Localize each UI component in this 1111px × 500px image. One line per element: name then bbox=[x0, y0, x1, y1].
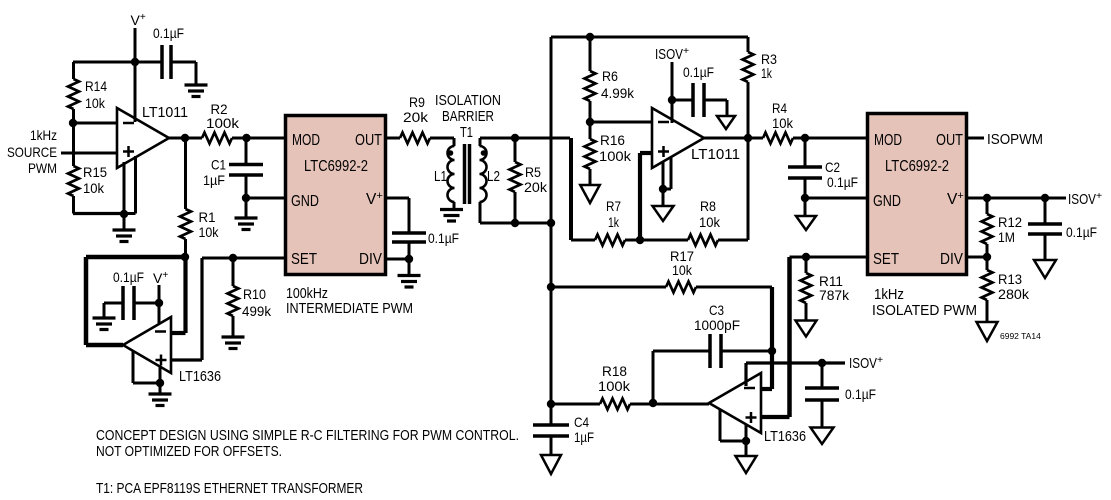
svg-text:ISOPWM: ISOPWM bbox=[987, 131, 1043, 148]
svg-text:1µF: 1µF bbox=[574, 429, 594, 445]
svg-text:T1: PCA EPF8119S ETHERNET TRAN: T1: PCA EPF8119S ETHERNET TRANSFORMER bbox=[96, 480, 363, 497]
U1 V+ pin overshoot bbox=[134, 112, 137, 122]
svg-text:MOD: MOD bbox=[292, 132, 320, 149]
junction rail/R18/C4 bbox=[547, 400, 555, 408]
svg-text:1k: 1k bbox=[608, 214, 620, 230]
junction R14/R15/inverting input bbox=[69, 119, 77, 127]
label R16 bbox=[599, 132, 632, 164]
label 0.1uF (C5) bbox=[153, 25, 184, 41]
wire U3 inverting input riser bbox=[171, 257, 186, 333]
svg-text:C3: C3 bbox=[709, 302, 724, 318]
U2 caption 100kHz bbox=[286, 285, 328, 302]
resistor R7 bbox=[595, 235, 640, 246]
label LT1011 (U4) bbox=[691, 146, 740, 163]
wire to U1 inverting input bbox=[73, 122, 117, 125]
svg-text:R6: R6 bbox=[602, 68, 618, 84]
svg-text:LTC6992-2: LTC6992-2 bbox=[304, 158, 368, 175]
svg-text:10k: 10k bbox=[85, 95, 106, 111]
wire U5 OUT to ISOPWM bbox=[967, 137, 984, 140]
svg-text:100k: 100k bbox=[206, 115, 240, 131]
wire U3 + input to SET line bbox=[171, 258, 285, 360]
capacitor C2 0.1uF bbox=[788, 138, 822, 198]
ground (C7/DIV) bbox=[398, 276, 421, 288]
capacitor C9 0.1uF bypass (U6) bbox=[805, 363, 839, 400]
svg-text:ISOLATION: ISOLATION bbox=[435, 92, 501, 109]
resistor R1 bbox=[180, 138, 191, 257]
svg-text:GND: GND bbox=[291, 193, 319, 210]
svg-text:CONCEPT DESIGN USING SIMPLE R-: CONCEPT DESIGN USING SIMPLE R-C FILTERIN… bbox=[96, 427, 519, 444]
resistor R3 bbox=[743, 37, 754, 138]
svg-text:R5: R5 bbox=[525, 164, 541, 180]
wire C1 bottom to ground bbox=[245, 198, 248, 217]
svg-text:R7: R7 bbox=[606, 198, 621, 214]
junction C9 top bbox=[818, 359, 826, 367]
svg-text:L1: L1 bbox=[434, 169, 447, 185]
resistor R9 bbox=[400, 133, 454, 144]
svg-text:0.1µF: 0.1µF bbox=[428, 230, 459, 246]
label R10 bbox=[242, 286, 272, 319]
svg-text:10k: 10k bbox=[672, 262, 693, 278]
wire rail to R17 bbox=[551, 286, 666, 289]
junction C1 bottom / U2 GND bbox=[242, 194, 250, 202]
svg-text:R13: R13 bbox=[998, 271, 1022, 287]
junction U3 supply node bbox=[155, 299, 163, 307]
ground (U4, isolated) bbox=[653, 206, 674, 221]
svg-text:R10: R10 bbox=[243, 286, 266, 302]
svg-text:LT1636: LT1636 bbox=[764, 428, 806, 445]
label 0.1uF (C10) bbox=[1066, 224, 1097, 240]
wire C9 to ground bbox=[821, 400, 824, 428]
junction R6 top bbox=[586, 33, 594, 41]
wire to U5 MOD pin bbox=[805, 137, 867, 140]
wire C10 to ground bbox=[1044, 234, 1047, 260]
wire into T1 primary bbox=[453, 138, 456, 146]
label L2 bbox=[487, 169, 500, 185]
resistor R2 bbox=[202, 133, 247, 144]
U5 pin label MOD bbox=[874, 132, 902, 149]
resistor R10 bbox=[228, 258, 239, 338]
label R17 bbox=[670, 248, 694, 278]
U5 caption 1kHz bbox=[874, 286, 904, 303]
junction R5 top bbox=[511, 134, 519, 142]
svg-text:10k: 10k bbox=[699, 214, 721, 230]
svg-text:SET: SET bbox=[291, 251, 317, 268]
label LT1636 (U3) bbox=[179, 368, 221, 385]
label C4 bbox=[574, 414, 594, 445]
svg-text:R12: R12 bbox=[998, 214, 1022, 230]
junction R12 top bbox=[983, 194, 991, 202]
U1 minus symbol bbox=[123, 122, 134, 125]
junction C3 right / inverting node bbox=[768, 347, 776, 355]
junction U4 output / R3 / R8 node bbox=[744, 134, 752, 142]
label 0.1uF (C9) bbox=[845, 386, 876, 402]
svg-text:BARRIER: BARRIER bbox=[442, 108, 494, 125]
U5 pin label V+ bbox=[947, 190, 964, 208]
capacitor C10 0.1uF (ISOV+) bbox=[1028, 198, 1062, 234]
svg-text:20k: 20k bbox=[524, 179, 548, 195]
wire T1 secondary bottom bbox=[480, 202, 551, 223]
U5 caption ISOLATED PWM bbox=[872, 302, 977, 319]
label 6992 TA14 bbox=[1000, 331, 1041, 341]
svg-text:C1: C1 bbox=[211, 157, 226, 173]
svg-text:0.1µF: 0.1µF bbox=[1066, 224, 1097, 240]
wire U5 DIV pin bbox=[967, 256, 987, 259]
svg-text:LT1011: LT1011 bbox=[691, 146, 740, 163]
U3 plus symbol bbox=[156, 355, 167, 366]
wire T1 secondary top bbox=[480, 138, 570, 146]
svg-text:R14: R14 bbox=[85, 78, 107, 94]
svg-text:LTC6992-2: LTC6992-2 bbox=[885, 158, 949, 175]
label R6 bbox=[601, 68, 635, 101]
op-amp U6 LT1636 triangle bbox=[709, 373, 761, 433]
resistor R14 bbox=[68, 62, 79, 123]
junction R1/feedback/U3 inverting bbox=[181, 253, 189, 261]
label ISOV+ (U6 supply) bbox=[849, 355, 883, 372]
op-amp U4 LT1011 triangle bbox=[652, 108, 704, 168]
svg-text:PWM: PWM bbox=[28, 160, 57, 176]
svg-text:6992 TA14: 6992 TA14 bbox=[1000, 331, 1041, 341]
svg-text:R16: R16 bbox=[600, 132, 625, 148]
node V+ supply label bbox=[131, 12, 146, 28]
wire to U2 MOD pin bbox=[247, 137, 285, 140]
transformer T1 secondary winding L2 bbox=[480, 146, 487, 202]
svg-text:MOD: MOD bbox=[874, 132, 902, 149]
label ISOV+ (net) bbox=[1068, 191, 1102, 208]
U2 pin label MOD bbox=[292, 132, 320, 149]
junction R4 / C2 / U5 MOD node bbox=[801, 134, 809, 142]
svg-text:DIV: DIV bbox=[940, 251, 964, 268]
junction R7/R8/U4 + input bbox=[636, 236, 644, 244]
wire C5 to ground bbox=[171, 62, 196, 84]
svg-text:787k: 787k bbox=[819, 287, 850, 303]
svg-text:C2: C2 bbox=[825, 159, 840, 175]
wire C8 to ground bbox=[704, 100, 727, 117]
U5 pin label OUT bbox=[936, 132, 963, 149]
junction R5 bottom bbox=[511, 219, 519, 227]
wire to U4 inverting input bbox=[590, 121, 652, 124]
resistor R11 bbox=[801, 257, 812, 320]
svg-text:L2: L2 bbox=[487, 169, 500, 185]
ground (U1) bbox=[113, 230, 136, 242]
U5 pin label DIV bbox=[940, 251, 964, 268]
resistor R5 bbox=[510, 138, 521, 223]
svg-text:SET: SET bbox=[873, 251, 899, 268]
label L1 bbox=[434, 169, 447, 185]
label R14 bbox=[85, 78, 107, 111]
label R3 bbox=[761, 51, 777, 81]
label R18 bbox=[598, 363, 631, 394]
junction R2/C1/MOD node bbox=[242, 134, 250, 142]
U2 part label LTC6992-2 bbox=[304, 158, 368, 175]
svg-text:0.1µF: 0.1µF bbox=[683, 64, 714, 80]
junction C7/DIV node bbox=[405, 255, 413, 263]
ground (L1) bbox=[440, 210, 463, 222]
wire rail to R18 bbox=[551, 403, 600, 406]
svg-text:100k: 100k bbox=[599, 148, 632, 164]
label R15 bbox=[83, 164, 107, 196]
input label 1kHz SOURCE PWM bbox=[7, 127, 57, 176]
transformer T1 primary winding L1 bbox=[448, 146, 455, 202]
U5 pin label SET bbox=[873, 251, 899, 268]
svg-text:ISOLATED PWM: ISOLATED PWM bbox=[872, 302, 977, 319]
label C3 bbox=[694, 302, 740, 333]
junction R10 top / SET line bbox=[229, 254, 237, 262]
junction R12/R13/DIV bbox=[983, 253, 991, 261]
junction U1 output node bbox=[181, 134, 189, 142]
label C1 bbox=[203, 157, 226, 189]
label R11 bbox=[819, 273, 850, 303]
svg-text:1k: 1k bbox=[761, 65, 773, 81]
label LT1636 (U6) bbox=[764, 428, 806, 445]
wire C2 bottom to U5 GND pin bbox=[805, 197, 867, 200]
svg-text:INTERMEDIATE PWM: INTERMEDIATE PWM bbox=[286, 300, 413, 317]
svg-text:R8: R8 bbox=[700, 198, 716, 214]
wire L2 top to R7 bbox=[571, 138, 595, 240]
U6 V- pins to ground node bbox=[720, 410, 746, 456]
junction secondary-bottom / rail bbox=[547, 219, 555, 227]
note line 3 T1 part bbox=[96, 480, 363, 497]
wire U3 V+ supply bbox=[158, 285, 161, 324]
svg-text:T1: T1 bbox=[460, 125, 473, 141]
svg-text:NOT OPTIMIZED FOR OFFSETS.: NOT OPTIMIZED FOR OFFSETS. bbox=[96, 443, 282, 460]
svg-text:R4: R4 bbox=[772, 100, 787, 116]
ground (C10, isolated) bbox=[1034, 260, 1056, 278]
junction C10 top bbox=[1041, 194, 1049, 202]
label C2 bbox=[825, 159, 858, 190]
wire U2 OUT to R9 bbox=[386, 137, 400, 140]
label T1 bbox=[460, 125, 473, 141]
label R7 bbox=[606, 198, 621, 230]
U5 pin label GND bbox=[873, 193, 901, 210]
svg-text:C4: C4 bbox=[574, 414, 589, 430]
U2 caption INTERMEDIATE PWM bbox=[286, 300, 413, 317]
op-amp U1 LT1011 triangle bbox=[117, 108, 169, 168]
U5 part label LTC6992-2 bbox=[885, 158, 949, 175]
wire source PWM input to U1 + input bbox=[61, 152, 117, 155]
label LT1011 (U1) bbox=[142, 104, 188, 121]
label R4 bbox=[772, 100, 794, 131]
ground (C1) bbox=[235, 218, 258, 230]
U2 pin label DIV bbox=[359, 251, 383, 268]
label R2 bbox=[206, 101, 240, 131]
svg-text:100k: 100k bbox=[598, 378, 631, 394]
capacitor C3 1000pF feedback bbox=[653, 334, 772, 403]
wire ISOV+ to U6 supply pin bbox=[746, 363, 845, 386]
svg-text:R15: R15 bbox=[83, 164, 107, 180]
junction C3 left / U6 output node bbox=[649, 399, 657, 407]
junction U6 ground node bbox=[742, 437, 750, 445]
junction R6/R16/U4 inverting bbox=[586, 118, 594, 126]
resistor R18 bbox=[600, 399, 709, 410]
wire top bias rail bbox=[551, 36, 748, 39]
U4 V+ pin overshoot bbox=[671, 113, 674, 123]
resistor R17 bbox=[666, 282, 772, 293]
ground (U3) bbox=[149, 394, 172, 406]
wire C4 to ground bbox=[550, 436, 553, 455]
ground (U6, isolated) bbox=[736, 456, 757, 473]
ground (C5) bbox=[185, 85, 208, 97]
wire R8 to U4 output node (hysteresis) bbox=[747, 138, 750, 240]
junction U4 supply node bbox=[668, 96, 676, 104]
wire C6 to ground bbox=[104, 303, 123, 318]
U3 minus symbol bbox=[155, 330, 166, 333]
svg-text:GND: GND bbox=[873, 193, 901, 210]
svg-text:OUT: OUT bbox=[355, 132, 382, 149]
T1 secondary phase dot bbox=[481, 150, 487, 156]
label ISOPWM output bbox=[987, 131, 1043, 148]
resistor R16 bbox=[585, 122, 596, 185]
U1 plus symbol bbox=[123, 146, 134, 157]
svg-text:1kHz: 1kHz bbox=[874, 286, 904, 303]
wire rail (T1 secondary return) bbox=[550, 37, 553, 425]
U6 minus symbol bbox=[744, 387, 755, 390]
wire U4 + input riser bbox=[640, 153, 652, 240]
resistor R4 bbox=[763, 133, 805, 144]
svg-text:LT1011: LT1011 bbox=[142, 104, 188, 121]
op-amp U3 LT1636 triangle bbox=[123, 317, 171, 373]
capacitor C4 1uF bbox=[533, 404, 569, 436]
U2 pin label SET bbox=[291, 251, 317, 268]
wire U1 output bbox=[169, 137, 202, 140]
label 0.1uF (C7) bbox=[428, 230, 459, 246]
label ISOLATION BARRIER bbox=[435, 92, 501, 125]
transformer T1 core bbox=[465, 144, 470, 204]
U2 pin label OUT bbox=[355, 132, 382, 149]
ground (C6) bbox=[93, 318, 116, 330]
svg-text:280k: 280k bbox=[998, 286, 1030, 302]
capacitor C5 0.1uF bypass (V+) bbox=[162, 45, 171, 79]
ground (R13, isolated) bbox=[977, 322, 998, 341]
resistor R8 bbox=[640, 235, 748, 246]
svg-text:10k: 10k bbox=[199, 224, 220, 240]
wire U5 V+ to ISOV+ bbox=[967, 197, 1066, 200]
label R5 bbox=[524, 164, 548, 195]
svg-text:DIV: DIV bbox=[359, 251, 383, 268]
U2 pin label GND bbox=[291, 193, 319, 210]
svg-text:R1: R1 bbox=[199, 209, 216, 225]
wire R17 to U6 inverting input bbox=[761, 287, 772, 389]
wire U2 V+ pin to C7 bbox=[386, 198, 409, 233]
svg-text:1kHz: 1kHz bbox=[30, 127, 57, 143]
wire thick feedback U3 output loop bbox=[86, 257, 185, 345]
ground (C4, isolated) bbox=[541, 455, 561, 474]
capacitor C8 0.1uF bypass (U4) bbox=[672, 83, 704, 117]
label R1 bbox=[199, 209, 220, 240]
junction U1 ground node bbox=[120, 210, 128, 218]
svg-text:1M: 1M bbox=[998, 229, 1015, 245]
svg-text:4.99k: 4.99k bbox=[601, 85, 635, 101]
wire V+ node to R14 top bbox=[73, 61, 162, 64]
resistor R13 bbox=[982, 257, 993, 322]
svg-text:20k: 20k bbox=[403, 109, 429, 125]
label ISOV+ (U4 supply) bbox=[655, 46, 689, 63]
label R9 bbox=[403, 94, 429, 125]
label R8 bbox=[699, 198, 721, 230]
ground (R16, isolated) bbox=[580, 185, 600, 203]
label 0.1uF (C6) bbox=[113, 269, 144, 285]
U6 plus symbol bbox=[746, 412, 757, 423]
svg-text:10k: 10k bbox=[83, 180, 105, 196]
junction U3 ground node bbox=[156, 379, 164, 387]
capacitor C1 1uF bbox=[229, 138, 263, 198]
U4 plus symbol bbox=[658, 146, 669, 157]
ground (R11, isolated) bbox=[796, 321, 817, 337]
wire U4 output bbox=[704, 137, 763, 140]
label R13 bbox=[998, 271, 1030, 302]
svg-text:0.1µF: 0.1µF bbox=[113, 269, 144, 285]
junction C2 bottom / U5 GND bbox=[801, 194, 809, 202]
T1 primary phase dot bbox=[448, 150, 454, 156]
svg-text:10k: 10k bbox=[772, 115, 794, 131]
note line 2 bbox=[96, 443, 282, 460]
U2 pin label V+ bbox=[366, 190, 383, 208]
ground (C8, isolated) bbox=[717, 116, 735, 129]
U1 V- pins to ground node bbox=[124, 156, 136, 229]
svg-text:1000pF: 1000pF bbox=[694, 317, 740, 333]
junction rail/R17 bbox=[547, 283, 555, 291]
wire ISOV+ to U4 supply pin bbox=[671, 62, 674, 119]
ground (C9, isolated) bbox=[811, 428, 834, 445]
junction V+ node bbox=[131, 58, 139, 66]
wire U6 + input to U5 SET line bbox=[761, 257, 867, 417]
note line 1 bbox=[96, 427, 519, 444]
junction R11 top / SET line bbox=[802, 253, 810, 261]
svg-text:1µF: 1µF bbox=[203, 172, 225, 188]
junction U4 ground node bbox=[659, 185, 667, 193]
resistor R12 bbox=[982, 198, 993, 257]
svg-text:R9: R9 bbox=[409, 94, 425, 110]
IC U5 LTC6992-2 (1kHz isolated PWM) body bbox=[868, 114, 967, 275]
U4 V- pins to ground node bbox=[663, 157, 671, 207]
wire C2 bottom to ground bbox=[804, 198, 807, 216]
label R12 bbox=[998, 214, 1022, 245]
svg-text:499k: 499k bbox=[242, 303, 272, 319]
ground (C2, isolated) bbox=[796, 216, 816, 230]
capacitor C7 0.1uF (U2 V+) bbox=[392, 233, 426, 242]
wire V+ down to LT1011 U1 bbox=[134, 28, 137, 118]
svg-text:OUT: OUT bbox=[936, 132, 963, 149]
wire C7 bottom / DIV to ground bbox=[386, 242, 409, 275]
svg-text:SOURCE: SOURCE bbox=[7, 144, 57, 160]
label 0.1uF (C8) bbox=[683, 64, 714, 80]
resistor R6 bbox=[585, 37, 596, 122]
svg-text:LT1636: LT1636 bbox=[179, 368, 221, 385]
U3 V- pins to ground node bbox=[133, 351, 160, 393]
ground (R10) bbox=[222, 337, 245, 349]
U4 minus symbol bbox=[658, 121, 669, 124]
IC U2 LTC6992-2 (100kHz intermediate PWM) body bbox=[286, 116, 386, 275]
svg-text:0.1µF: 0.1µF bbox=[153, 25, 184, 41]
wire R15 bottom to U1 ground node bbox=[73, 212, 124, 215]
svg-text:0.1µF: 0.1µF bbox=[845, 386, 876, 402]
capacitor C6 0.1uF bypass (U3) bbox=[123, 286, 159, 320]
label V+ (U3 supply) bbox=[153, 270, 168, 286]
wire C1 bottom to U2 GND pin bbox=[246, 197, 285, 200]
svg-text:R18: R18 bbox=[602, 363, 627, 379]
wire T1 primary bottom to ground bbox=[453, 202, 456, 209]
svg-text:0.1µF: 0.1µF bbox=[827, 174, 858, 190]
resistor R15 bbox=[68, 123, 79, 214]
